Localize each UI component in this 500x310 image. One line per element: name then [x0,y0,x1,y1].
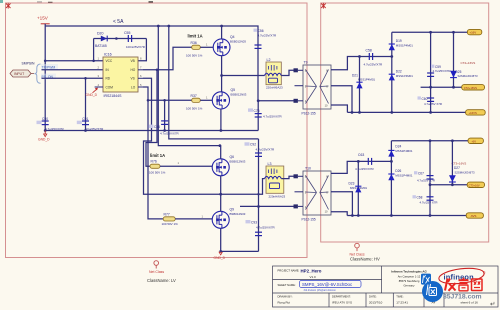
svg-text:4.7u/25V/X7R: 4.7u/25V/X7R [364,63,384,67]
svg-text:100 50V 1%: 100 50V 1% [149,171,166,175]
node bottom rail junctions [351,111,432,114]
svg-text:C91: C91 [82,117,88,121]
svg-text:GND_D: GND_D [86,93,98,97]
svg-text:SMPSIN: SMPSIN [22,62,36,66]
svg-text:MSS1P4M01: MSS1P4M01 [350,186,367,190]
diode D21 [352,57,375,113]
svg-text:S2SMAJ03-BT3: S2SMAJ03-BT3 [455,170,475,174]
svg-text:ClassName: LV: ClassName: LV [147,278,176,283]
svg-text:C86: C86 [154,125,160,129]
svg-text:220nH/6A23: 220nH/6A23 [266,85,283,89]
svg-text:4.7u/25V/X7R: 4.7u/25V/X7R [258,33,278,37]
svg-text:C55: C55 [124,31,130,35]
wire +15V top rail [45,26,258,101]
svg-text:CT2+16VS: CT2+16VS [461,61,476,65]
svg-text:Am Campeon 1-12: Am Campeon 1-12 [398,274,421,278]
svg-text:C67: C67 [418,172,424,176]
diode D20 BAT165 [94,32,147,61]
svg-text:MSS1P4M01: MSS1P4M01 [396,74,413,78]
wire Q4 drain [220,25,223,39]
node return2 [257,205,260,208]
svg-text:IC16: IC16 [104,53,112,57]
svg-text:4.7u/25V/X7R: 4.7u/25V/X7R [256,225,276,229]
wire midpoint to L2 [222,75,265,77]
svg-text:D19: D19 [396,39,402,43]
svg-text:+15V: +15V [37,16,49,21]
svg-text:IFEU ATV SYS: IFEU ATV SYS [332,300,352,304]
transformer T10 [294,167,332,222]
node D20 column [92,60,95,63]
svg-text:MSS1P4M01: MSS1P4M01 [395,174,412,178]
svg-text:100n/25V/X7R: 100n/25V/X7R [126,45,145,49]
capacitor C76 column [248,101,283,131]
svg-text:D23: D23 [349,181,355,185]
IC16 pin names [106,59,136,89]
corner artifact mark [0,0,3,3]
label CT2+16VS [461,61,476,65]
svg-text:V1.0: V1.0 [310,275,317,279]
title block sheet row [278,280,362,291]
HV blanket corner star [321,3,326,9]
node D20/C55 [115,37,118,40]
diode D26 [388,169,413,180]
title block department [332,295,352,305]
harness signal PS_ON [41,74,56,80]
svg-text:ClassName: HV: ClassName: HV [350,257,380,262]
node GND rail junctions [44,129,223,132]
wire R76 to Q6 gate [160,161,212,166]
node C67 top [429,139,432,142]
wire T9 pin6 stub [331,86,352,113]
svg-text:C63: C63 [358,153,364,157]
node bottom rail2 junctions [351,214,431,217]
node GND2 [219,250,222,253]
svg-text:4.7u/25V/X7R: 4.7u/25V/X7R [433,69,451,73]
svg-text:C60: C60 [422,97,428,101]
title block date [369,295,383,305]
wire +15V vertical to VCC and C90 [44,26,46,131]
svg-text:+16V: +16V [469,31,476,35]
wire LO net [143,87,192,219]
svg-text:limit 1A: limit 1A [188,34,203,39]
svg-text:SHEET NAME:: SHEET NAME: [278,283,296,287]
ground GND_D at COM [86,88,98,98]
wire Q7 drain [220,194,222,211]
capacitor C67 [414,141,435,185]
title block sheet of [461,301,479,305]
title block time [396,295,408,305]
svg-text:Infineon Technologies AG: Infineon Technologies AG [391,269,427,273]
svg-text:TR/PWM: TR/PWM [42,65,56,69]
svg-text:DATE:: DATE: [369,295,377,299]
svg-text:T9: T9 [304,61,308,65]
wire IN [42,69,104,71]
wire T9 pin10 to bottom rail [331,105,347,112]
IC16 pin numbers [98,57,143,87]
svg-text:D26: D26 [395,169,401,173]
wire midpoint2 to L3 [221,179,265,195]
harness brace [34,64,40,83]
svg-text:limit 1A: limit 1A [150,153,165,158]
port CT2+16VS [462,85,485,90]
svg-text:D20: D20 [97,32,103,36]
svg-text:< 5A: < 5A [113,19,124,25]
node VCC branch [44,60,47,63]
svg-text:HO: HO [131,68,136,72]
capacitor C91 [77,117,104,131]
watermark red text [445,278,482,291]
node midpoint2 crossing [257,193,259,195]
diode D24 [388,141,413,216]
svg-text:4.7u/25V X7R: 4.7u/25V X7R [417,178,435,182]
svg-text:T10: T10 [305,167,311,171]
wire R36 to Q4 gate [200,43,213,48]
transistor Q7 [212,208,246,229]
svg-text:-6VS: -6VS [470,214,476,218]
node row2 D23 tap [357,160,360,163]
svg-text:↵: ↵ [490,301,495,308]
svg-text:C93: C93 [251,220,257,224]
wire HO to R77 [146,70,157,166]
title block address [391,269,427,287]
transistor Q5 [212,88,247,109]
node mid junctions [429,86,455,89]
port -6V [468,138,483,143]
label SMPSIN [22,62,36,66]
node RD / C91 [84,77,87,80]
capacitor C60 [418,87,443,112]
svg-text:C92: C92 [250,143,256,147]
capacitor C59 [427,32,450,87]
watermark blue circle [422,281,443,302]
IC16 pin stubs [95,70,143,87]
resistor R37 [186,94,203,111]
wire return2 [240,205,294,207]
resistor R77 [162,212,179,226]
wire primary return [258,100,294,102]
net class HV [350,243,380,261]
watermark blue tile small [421,274,431,285]
op-amp U1 gate driver IC16 body [103,53,138,98]
Infineon logo [438,266,486,286]
wire VCC [45,60,103,62]
capacitor C92 column [245,139,276,207]
svg-text:4.7u/25V/X7R: 4.7u/25V/X7R [160,132,180,136]
diode D25 TVS [450,32,478,87]
svg-text:sheet 6 of 16: sheet 6 of 16 [461,301,479,305]
node D19 bottom [390,55,393,58]
svg-text:SMPS_16V@-6V.SchDoc: SMPS_16V@-6V.SchDoc [302,282,353,287]
wire Q5 drain [221,76,223,92]
svg-text:DEPARTMENT:: DEPARTMENT: [332,295,351,299]
svg-text:C90: C90 [42,117,48,121]
capacitor C63 [355,153,375,171]
svg-text:INPUT: INPUT [14,72,24,76]
svg-text:GND_D: GND_D [214,256,226,260]
svg-text:+16VS: +16VS [469,111,477,115]
node D24 bottom [390,160,393,163]
port -6VS [466,213,483,218]
svg-text:R36: R36 [191,41,197,45]
svg-text:BAT165: BAT165 [95,44,107,48]
wire C55 to VB [138,39,146,61]
svg-text:PS12-155: PS12-155 [302,111,316,115]
svg-text:R37: R37 [191,94,197,98]
svg-text:TIME:: TIME: [396,295,403,299]
svg-text:4.7u/25V/X7R: 4.7u/25V/X7R [263,115,283,119]
svg-text:4.7u/25V/X7R: 4.7u/25V/X7R [256,148,276,152]
svg-text:Rong Rui: Rong Rui [278,300,291,304]
svg-text:DRAWN BY:: DRAWN BY: [278,295,293,299]
wire Q6 source to midpoint2 [220,176,222,194]
wire top rail HV2 [391,140,468,142]
wire mid HV2 [430,184,467,186]
inductor L3 [265,162,286,199]
label CT3+16VS [452,161,467,165]
svg-text:C68: C68 [417,196,423,200]
svg-text:Germany: Germany [403,283,415,287]
svg-text:MSS1P4M01: MSS1P4M01 [396,43,413,47]
node D25 top [452,31,455,34]
svg-text:85J718.com: 85J718.com [443,294,482,301]
svg-text:CT3+16VS: CT3+16VS [452,161,467,165]
svg-text:VCC: VCC [106,59,113,63]
transformer T9 [294,61,332,116]
svg-text:BSB012N03: BSB012N03 [230,39,246,43]
diode D19 [389,32,414,112]
wire HO net [143,47,192,70]
wire R77 to Q7 gate [175,214,212,219]
svg-text:3rd division (2N)/part divisio: 3rd division (2N)/part division [304,289,337,292]
capacitor C68 [413,185,438,216]
port +16V [467,29,481,34]
diode D23 [349,161,368,215]
svg-text:CT2+16VS: CT2+16VS [464,86,477,90]
transistor Q4 [213,35,246,56]
svg-text:PS12-155: PS12-155 [302,217,316,221]
svg-text:C76: C76 [254,109,260,113]
wire GND2 run [221,250,259,252]
node primary return [257,99,260,102]
wire +15V drop to Q6 drain [157,25,220,146]
svg-text:17:23:41: 17:23:41 [396,300,408,304]
svg-text:D22: D22 [396,70,402,74]
capacitor C56 column [254,29,278,49]
diode D22 [389,70,414,81]
svg-text:BSB012N03: BSB012N03 [231,92,247,96]
wire RD [42,77,104,79]
title block project row [278,268,322,279]
wire T10 pin10 to bottom rail [331,212,347,216]
wire T9 pin8 riser [331,57,392,70]
wire T10 pin6 stub [331,192,352,216]
capacitor C86 [149,100,180,135]
capacitor C58 [364,49,384,67]
wire +15V drop to C92 rail [167,25,258,139]
node D27 top [451,139,454,142]
svg-text:L2: L2 [267,58,271,62]
capacitor C93 column [246,207,276,252]
LV blanket corner star [6,3,11,9]
svg-text:LO: LO [131,85,136,89]
wire mid HV1 [421,86,462,88]
title block frame [273,266,499,307]
svg-text:Net Class: Net Class [149,270,164,274]
inductor L2 [265,58,284,90]
svg-text:GND_D: GND_D [38,137,50,141]
wire T10 pin8 riser [331,161,391,173]
svg-text:4.7u/25V X7R: 4.7u/25V X7R [420,201,438,205]
title block drawn by [278,295,293,305]
label limit 1A (bottom) [150,153,165,158]
svg-text:COM: COM [106,85,114,89]
svg-text:S2SMAJ03-BT3: S2SMAJ03-BT3 [458,74,478,78]
svg-text:2013/7/10: 2013/7/10 [369,300,383,304]
wire C91 column [85,78,87,130]
svg-text:MSS1P4M01: MSS1P4M01 [395,149,412,153]
top edge scan dashes [37,1,153,3]
return arrow glyph [490,301,495,308]
node midpoint [220,74,223,77]
svg-text:100 50V 1%: 100 50V 1% [186,54,203,58]
port +16VS [466,110,486,115]
svg-text:220nH/6A23: 220nH/6A23 [269,195,286,199]
svg-text:100 50V 1%: 100 50V 1% [186,107,203,111]
wire Q7 source to GND [220,228,222,251]
net class LV [147,261,176,283]
diode D27 TVS [449,141,475,185]
wire L3 to T10 [281,176,293,178]
port CT3+16VS [467,182,484,187]
svg-text:C56: C56 [258,29,264,33]
node midpoint2 [219,193,222,196]
svg-text:R77: R77 [164,212,170,216]
node C59 top [429,31,432,34]
svg-text:-6V: -6V [472,139,477,143]
wire Q5 source [220,109,222,131]
svg-text:VB: VB [131,59,135,63]
title block size A4 [432,300,436,304]
wire bottom rail HV2 [347,215,466,217]
svg-text:VS: VS [131,77,135,81]
svg-text:4.7u/25V X7R: 4.7u/25V X7R [424,102,442,106]
resistor R36 [186,41,203,58]
svg-text:D24: D24 [395,145,401,149]
svg-text:L3: L3 [268,162,272,166]
svg-text:BSB012N03: BSB012N03 [230,212,246,216]
wire VS net [143,78,221,194]
label < 5A [113,19,124,25]
ground GND_D main [38,131,50,142]
ground GND_D bottom [214,252,226,260]
svg-text:IRS21844S: IRS21844S [104,94,123,98]
svg-text:RD: RD [106,77,111,81]
svg-text:PROJECT NAME:: PROJECT NAME: [278,268,300,272]
resistor R76 [149,160,166,175]
HV net-class blanket frame [321,3,489,242]
svg-text:R76: R76 [151,160,157,164]
node C86 tap [163,99,166,102]
LV net-class blanket frame [6,3,308,258]
harness signal TR/PWM [41,64,58,70]
node row1 D21 tap [358,55,361,58]
svg-text:C58: C58 [366,49,372,53]
svg-text:MSS1P4M01: MSS1P4M01 [358,78,375,82]
wire Q6 drain [219,144,222,159]
wire top rail HV1 [392,31,468,33]
svg-text:BSB012N03: BSB012N03 [230,159,246,163]
wire GND rail [45,130,258,132]
capacitor C90 [37,117,65,131]
watermark domain text [443,294,482,301]
wire bottom rail HV1 [347,111,465,113]
wire L2 to T9 [281,70,293,75]
svg-text:HP2_Hero: HP2_Hero [301,268,322,273]
label limit 1A (top) [188,34,203,39]
transistor Q6 [212,155,246,176]
node HO branch [156,69,159,72]
node mid2 junctions [429,183,454,186]
svg-text:CT3+16V: CT3+16V [469,183,480,187]
svg-text:85579 Neubiberg: 85579 Neubiberg [399,279,420,283]
port INPUT harness [10,70,34,77]
wire R37 to Q5 gate [200,96,212,101]
capacitor C55 [124,31,145,49]
wire Q4 source to midpoint [221,56,223,76]
power +15V [37,16,50,27]
svg-text:100 50V 1%: 100 50V 1% [162,222,179,226]
